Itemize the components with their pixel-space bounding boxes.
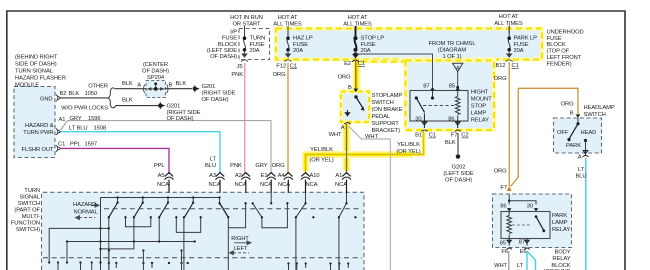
high mount stop lamp relay highlight box fill [406, 61, 495, 131]
fuse HAZ LP 20A symbol [287, 26, 289, 50]
svg-text:(ON BRAKE: (ON BRAKE [372, 107, 403, 113]
wire: bus stub above PARK LP fuse [508, 26, 510, 34]
svg-text:B: B [169, 83, 173, 89]
park lamp relay pin 85 exit [507, 239, 511, 246]
svg-text:UNDERHOOD: UNDERHOOD [547, 29, 584, 35]
svg-text:FUSE: FUSE [222, 36, 237, 42]
svg-text:STOPLAMP: STOPLAMP [372, 93, 403, 99]
svg-text:A2: A2 [235, 173, 242, 179]
svg-text:TURN SIGNAL: TURN SIGNAL [15, 69, 54, 75]
turn signal switch dashed border [42, 192, 365, 270]
svg-text:B1: B1 [415, 133, 422, 139]
hazard blades [109, 203, 229, 218]
interior drop from blade1 tip [108, 217, 110, 270]
turn signal switch mechanical dashed link [104, 208, 362, 210]
svg-text:LAMP: LAMP [471, 111, 487, 117]
svg-text:C1: C1 [358, 61, 365, 67]
wire: bus stub above HAZ LP fuse [287, 26, 289, 33]
svg-text:A: A [341, 125, 345, 131]
svg-text:BLK: BLK [176, 81, 187, 87]
wire: GRY 1596 to switch E1 [61, 121, 272, 174]
svg-text:(LEFT SIDE: (LEFT SIDE [207, 48, 237, 54]
svg-text:FUSE: FUSE [547, 36, 562, 42]
yellow highlight band: yel/blk wire relay 30 to A10 [306, 131, 424, 171]
svg-text:F6: F6 [501, 249, 508, 255]
interior bottom stubs [58, 242, 348, 270]
svg-text:86: 86 [448, 116, 454, 122]
svg-text:A4: A4 [278, 173, 286, 179]
svg-text:HEADLAMP: HEADLAMP [584, 105, 615, 111]
turn signal switch connector row: A5 [164, 173, 173, 180]
interior hline2 [101, 242, 134, 249]
svg-text:ORG: ORG [272, 163, 285, 169]
svg-text:J5: J5 [237, 64, 243, 70]
svg-text:E6: E6 [520, 249, 527, 255]
svg-text:BLK: BLK [69, 91, 80, 97]
svg-text:NCA: NCA [278, 182, 290, 188]
SP204 splice box fill [146, 81, 166, 98]
svg-text:PARK LP: PARK LP [514, 36, 538, 42]
svg-text:C1: C1 [290, 63, 297, 69]
svg-text:HOT IN RUN: HOT IN RUN [230, 15, 263, 21]
interior left long vertical [100, 198, 102, 270]
svg-text:NCA: NCA [260, 182, 272, 188]
svg-text:87: 87 [519, 239, 525, 245]
svg-text:OTHER: OTHER [88, 83, 108, 89]
connector arrow below STOP LP fuse E2 [353, 54, 358, 57]
park lamp relay internals [507, 195, 538, 212]
svg-text:WHT: WHT [494, 263, 507, 269]
svg-text:SWITCH): SWITCH) [16, 227, 40, 233]
interior blade2 tip drop [133, 217, 135, 241]
svg-text:ALL TIMES: ALL TIMES [343, 22, 372, 28]
flasher module dashed border [14, 87, 55, 158]
svg-text:BLU: BLU [205, 163, 216, 169]
svg-text:ALL TIMES: ALL TIMES [494, 21, 523, 27]
svg-text:NCA: NCA [209, 182, 221, 188]
wire: PNK turn fuse output to switch A2 [244, 63, 246, 174]
I/P fuse block dashed box [239, 29, 270, 60]
flasher module pin C1 FLSHR OUT [56, 145, 61, 152]
svg-text:C2: C2 [461, 133, 468, 139]
headlamp switch internals [567, 118, 588, 157]
svg-text:LEFT: LEFT [234, 246, 248, 252]
connector A2 [241, 173, 250, 180]
ground G202 [456, 154, 461, 159]
wire: ORG haz fuse output to switch A4 [287, 63, 289, 174]
svg-text:(OR YEL): (OR YEL) [396, 149, 420, 155]
svg-text:FUSE: FUSE [361, 42, 376, 48]
svg-text:85: 85 [500, 240, 506, 246]
headlamp switch box fill [554, 118, 602, 153]
svg-text:1 OF 1): 1 OF 1) [443, 54, 462, 60]
connector A4 [284, 173, 293, 180]
svg-text:C1: C1 [512, 63, 519, 69]
svg-text:LT: LT [517, 263, 524, 269]
svg-text:HAZARD FLASHER: HAZARD FLASHER [15, 76, 66, 82]
connector arrow F7 into park lamp relay block [507, 187, 512, 191]
svg-text:FLSHR OUT: FLSHR OUT [22, 147, 55, 153]
hazard blade stubs [118, 198, 220, 203]
svg-text:HAZARD: HAZARD [73, 202, 96, 208]
svg-text:HIGHT: HIGHT [471, 90, 489, 96]
wire: BLK lower branch to G201 [114, 106, 158, 108]
wire: WHT from park relay F6 down [508, 251, 510, 270]
relay coil [455, 91, 460, 122]
park lamp relay dashed link [512, 224, 532, 226]
yellow highlight band: stop fuse to stoplamp switch [353, 60, 361, 92]
turn signal switch box fill [42, 192, 365, 270]
svg-text:86: 86 [500, 204, 506, 210]
svg-text:B: B [348, 85, 352, 91]
svg-text:FUSE: FUSE [293, 42, 308, 48]
svg-text:OF DASH): OF DASH) [142, 68, 169, 74]
svg-text:LT: LT [578, 167, 585, 173]
svg-text:TURN: TURN [24, 188, 40, 194]
svg-text:PPL: PPL [154, 163, 166, 169]
wire: LT BLU 1508 to switch A3 [61, 132, 221, 174]
interior long verticals [183, 217, 185, 270]
relay pin 85 arrow into body [455, 87, 460, 90]
svg-text:BLK: BLK [445, 140, 456, 146]
svg-text:OF DASH): OF DASH) [202, 97, 229, 103]
svg-text:1050: 1050 [85, 91, 98, 97]
relay pin 87 arrow into body [430, 87, 435, 90]
wire: BLK upper branch to SP204 [114, 88, 146, 90]
svg-text:PEDAL: PEDAL [372, 114, 391, 120]
hazard/normal direction arrows [76, 203, 100, 219]
interior top bus [101, 197, 220, 199]
svg-text:(PART OF: (PART OF [14, 208, 40, 214]
high mount stop lamp relay body [410, 91, 468, 122]
interior U channel 1 left [126, 217, 151, 226]
relay pin 86 exit arrow [455, 121, 460, 128]
svg-text:A: A [137, 83, 141, 89]
connector arrow below TURN fuse J5 [242, 52, 247, 57]
triangle connector A from TR CHMSL [453, 63, 463, 71]
svg-text:NCA: NCA [335, 182, 347, 188]
svg-text:SIDE OF DASH): SIDE OF DASH) [15, 62, 57, 68]
wire: BLK from SP204 B to G201 [166, 88, 193, 90]
turn signal switch interior dots [48, 196, 357, 264]
svg-text:(BEHIND RIGHT: (BEHIND RIGHT [15, 55, 58, 61]
stoplamp switch highlight box fill [341, 92, 369, 123]
svg-text:ORG: ORG [273, 72, 286, 78]
svg-text:RIGHT: RIGHT [231, 236, 249, 242]
park lamp relay contact blade [535, 215, 538, 218]
svg-text:W/O PWR LOCKS: W/O PWR LOCKS [61, 105, 108, 111]
svg-text:LEFT FRONT: LEFT FRONT [547, 55, 582, 61]
svg-text:RELAY: RELAY [552, 256, 570, 262]
svg-text:30: 30 [415, 116, 421, 122]
interior E1 stub [270, 193, 272, 204]
svg-text:YEL/BLK: YEL/BLK [397, 142, 420, 148]
svg-text:C1: C1 [58, 141, 65, 147]
wire: STOP fuse branch to relay pin 87 [356, 54, 433, 88]
fuse PARK LP 20A symbol [508, 26, 510, 50]
wire: LT BLU headlamp switch A down right side [585, 158, 587, 270]
svg-text:LT: LT [210, 156, 217, 162]
svg-text:LT BLU: LT BLU [69, 125, 88, 131]
connector A3 [215, 173, 224, 180]
brace split OTHER / W/O PWR LOCKS [108, 88, 114, 108]
svg-text:(RIGHT SIDE: (RIGHT SIDE [202, 91, 236, 97]
svg-text:PNK: PNK [230, 163, 242, 169]
svg-text:SWITCH: SWITCH [18, 201, 40, 207]
svg-text:FUSE: FUSE [250, 42, 265, 48]
interior right U channel 1 [220, 203, 246, 227]
svg-text:1596: 1596 [88, 116, 101, 122]
yellow dashed border: hot at all times bus box [276, 29, 542, 60]
svg-text:(CENTER: (CENTER [143, 62, 168, 68]
yellow dashed path segment: top of white gap between stoplamp switch and relay [361, 60, 405, 64]
svg-text:GRY: GRY [255, 163, 267, 169]
svg-text:B: B [570, 111, 574, 117]
svg-text:BLOCK: BLOCK [218, 42, 237, 48]
wire: WHT stoplamp switch A branch going right and down off-page [349, 127, 390, 270]
interior L wire lower left [49, 228, 109, 262]
svg-text:PARK: PARK [552, 213, 567, 219]
svg-text:SUPPORT: SUPPORT [372, 121, 400, 127]
wire: CHMSL signal to relay pin 85 [457, 72, 459, 88]
svg-text:FROM TR CHMSL: FROM TR CHMSL [429, 41, 477, 47]
svg-text:(LEFT SIDE: (LEFT SIDE [443, 171, 473, 177]
svg-text:ALL TIMES: ALL TIMES [273, 22, 302, 28]
svg-text:TURN: TURN [250, 36, 266, 42]
fuse TURN 20A symbol [244, 26, 246, 50]
svg-text:20A: 20A [250, 48, 260, 54]
svg-text:BLK: BLK [122, 98, 133, 104]
right/left direction arrows [230, 241, 252, 255]
yellow dashed border: stoplamp switch box [341, 92, 369, 123]
svg-text:NCA: NCA [235, 182, 247, 188]
wire: bus stub above TURN fuse [244, 26, 246, 33]
flasher module box fill [14, 87, 55, 158]
splice SP204 symbol [144, 84, 169, 94]
svg-text:BODY: BODY [554, 249, 570, 255]
svg-text:SP204: SP204 [147, 75, 165, 81]
svg-text:SWITCH: SWITCH [584, 112, 606, 118]
interior A10 blade [296, 193, 306, 218]
headlamp switch pin B arrow [576, 114, 581, 118]
relay pin 30 exit arrow [422, 114, 427, 129]
svg-text:OF DASH): OF DASH) [167, 116, 194, 122]
svg-text:PPL: PPL [70, 141, 82, 147]
svg-text:BLU: BLU [576, 174, 587, 180]
park lamp relay box fill [493, 194, 572, 248]
svg-text:I/P: I/P [230, 29, 237, 35]
connector arrow below PARK LP fuse B12 [507, 52, 512, 57]
svg-text:FENDER): FENDER) [547, 61, 572, 67]
svg-text:A1: A1 [335, 173, 342, 179]
wire: LT BLU pair from park relay E6 down [527, 251, 536, 270]
svg-text:PNK: PNK [231, 72, 243, 78]
svg-text:RELAY: RELAY [471, 118, 489, 124]
wire: BLK 1050 from GND [61, 97, 109, 99]
wire: WHT stoplamp switch A down to A1 [346, 124, 348, 174]
svg-text:LAMP: LAMP [552, 220, 568, 226]
svg-text:HAZ LP: HAZ LP [293, 36, 313, 42]
svg-text:SWITCH: SWITCH [372, 100, 394, 106]
svg-text:E2: E2 [344, 61, 351, 67]
svg-text:(RIGHT SIDE: (RIGHT SIDE [167, 110, 201, 116]
svg-text:ORG: ORG [338, 74, 351, 80]
svg-text:STOP LP: STOP LP [361, 36, 385, 42]
svg-text:G202: G202 [452, 165, 466, 171]
interior hline1 [67, 241, 195, 243]
interior blade3 tip drop [158, 217, 160, 241]
wire: ORG park fuse output down to F7 [508, 62, 510, 187]
svg-text:HOT AT: HOT AT [278, 15, 298, 21]
park lamp relay dashed border [493, 194, 572, 248]
flasher module pin GND [56, 95, 61, 102]
interior U channel 2 left [176, 217, 200, 232]
svg-text:HEAD: HEAD [581, 130, 597, 136]
fuse STOP LP 20A symbol (highlighted, bold) [355, 26, 357, 50]
svg-text:OF DASH): OF DASH) [445, 177, 472, 183]
svg-text:BLOCK: BLOCK [547, 42, 566, 48]
svg-text:ORG: ORG [494, 76, 507, 82]
svg-text:1597: 1597 [85, 141, 98, 147]
turn signal switch interior wiring [49, 193, 346, 270]
hot-at-all-times bus highlight box fill [276, 29, 542, 60]
svg-text:NORMAL: NORMAL [74, 210, 99, 216]
svg-text:(OR YEL): (OR YEL) [309, 157, 333, 163]
connector arrow below HAZ LP fuse F12 [286, 52, 291, 57]
svg-text:RELAY: RELAY [552, 227, 570, 233]
svg-text:20A: 20A [361, 48, 371, 54]
ground G201 upper [193, 87, 197, 91]
svg-text:A3: A3 [209, 173, 216, 179]
svg-text:NCA: NCA [306, 182, 318, 188]
svg-text:SIGNAL: SIGNAL [19, 195, 41, 201]
svg-text:(DIAGRAM: (DIAGRAM [438, 48, 466, 54]
yellow highlight band: stoplamp switch A to turn signal switch A1 [343, 122, 351, 171]
flasher module pin A1 HAZARD & TURN PWR [56, 128, 61, 135]
SP204 splice dashed border [146, 81, 166, 98]
svg-text:F7: F7 [451, 133, 458, 139]
svg-text:YEL/BLK: YEL/BLK [310, 147, 333, 153]
connector A10 [301, 173, 310, 180]
svg-text:A1: A1 [59, 117, 66, 123]
svg-text:B12: B12 [495, 63, 505, 69]
svg-text:E1: E1 [261, 173, 268, 179]
relay contact blade [415, 96, 418, 99]
svg-text:1508: 1508 [94, 125, 107, 131]
svg-text:OF DASH): OF DASH) [210, 54, 237, 60]
svg-text:GRY: GRY [70, 116, 82, 122]
svg-text:B2: B2 [60, 91, 67, 97]
svg-text:OR START: OR START [233, 22, 262, 28]
wire: BLK relay 86 to G202 [457, 133, 459, 154]
svg-text:ORG: ORG [561, 102, 574, 108]
svg-text:G201: G201 [167, 103, 181, 109]
svg-text:HAZARD &: HAZARD & [25, 123, 54, 129]
park lamp relay body [501, 212, 550, 239]
relay mechanical dashed link [423, 105, 455, 107]
svg-text:F7: F7 [500, 185, 507, 191]
svg-text:20A: 20A [514, 48, 524, 54]
svg-text:MODULE: MODULE [15, 83, 39, 89]
interior standalone contact drops [296, 217, 339, 270]
interior A1 blade [339, 193, 347, 218]
svg-text:HOT AT: HOT AT [499, 14, 519, 20]
svg-text:C1: C1 [429, 133, 436, 139]
wire: YEL/BLK relay 30 to A10 (yellow wire under highlight) [306, 131, 424, 174]
svg-text:A5: A5 [158, 173, 165, 179]
svg-text:85: 85 [449, 84, 455, 90]
wire: PPL 1597 to switch A5 [61, 148, 170, 174]
svg-text:ORG: ORG [494, 169, 507, 175]
svg-text:G201: G201 [202, 84, 216, 90]
wire: ORG headlamp switch feed (right branch converging at F7) [511, 88, 578, 186]
interior right U channel 2 [253, 203, 288, 227]
svg-text:OFF: OFF [557, 130, 569, 136]
svg-text:WHT: WHT [329, 132, 342, 138]
svg-text:WHT: WHT [365, 134, 378, 140]
svg-text:F12: F12 [276, 63, 286, 69]
headlamp switch dashed border [554, 118, 602, 153]
wire: ORG stop fuse output to stoplamp switch B [355, 60, 357, 91]
svg-text:(TOP OF: (TOP OF [547, 49, 570, 55]
svg-text:A: A [578, 155, 582, 161]
svg-text:20A: 20A [293, 48, 303, 54]
svg-text:87: 87 [423, 84, 429, 90]
connector A1 [342, 173, 351, 180]
svg-text:PARK: PARK [566, 143, 581, 149]
svg-text:STOP: STOP [471, 104, 487, 110]
junction dot below STOP LP fuse [354, 52, 358, 56]
svg-text:MULTI-: MULTI- [22, 214, 40, 220]
svg-text:30: 30 [527, 204, 533, 210]
connector E1 [267, 173, 276, 180]
ground G201 lower [158, 103, 162, 107]
svg-text:MOUNT: MOUNT [471, 97, 492, 103]
svg-text:TURN PWR: TURN PWR [23, 130, 53, 136]
svg-text:FUSE: FUSE [514, 42, 529, 48]
svg-text:FUNCTION: FUNCTION [11, 221, 40, 227]
turn signal switch lower dashed link [43, 257, 362, 259]
svg-text:GND: GND [40, 96, 53, 102]
park lamp relay pin 87 exit [525, 239, 529, 246]
svg-text:NCA: NCA [157, 182, 169, 188]
svg-text:HOT AT: HOT AT [348, 15, 368, 21]
stoplamp switch internals [344, 89, 364, 125]
svg-text:A10: A10 [310, 173, 320, 179]
yellow dashed border: high mount stop lamp relay highlight box [406, 61, 495, 131]
wire: bus stub above STOP LP fuse [355, 26, 357, 33]
svg-text:A: A [456, 65, 460, 71]
park lamp relay coil [507, 212, 512, 239]
svg-text:BLK: BLK [122, 81, 133, 87]
